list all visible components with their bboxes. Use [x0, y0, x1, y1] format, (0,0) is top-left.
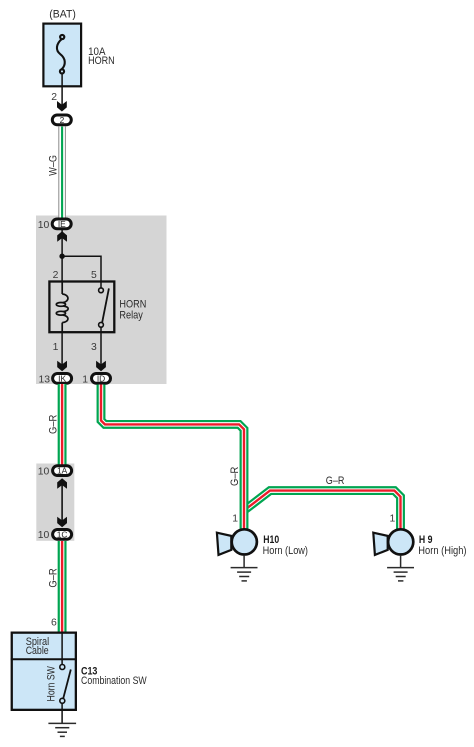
relay block gray panel — [36, 216, 167, 385]
connector IE oval — [52, 219, 71, 229]
svg-text:1: 1 — [53, 342, 59, 353]
fuse 10A HORN box — [43, 24, 81, 87]
wire relay pin1 to IK — [61, 333, 63, 367]
wire relay pin3 to ID — [100, 333, 102, 367]
svg-text:13: 13 — [38, 375, 50, 386]
svg-text:10: 10 — [38, 530, 50, 541]
ground spiral cable — [48, 723, 76, 736]
ground H10 — [231, 555, 258, 581]
svg-text:Horn (High): Horn (High) — [418, 545, 466, 557]
svg-text:3: 3 — [91, 342, 97, 353]
horn H10 circle — [232, 529, 257, 554]
gray panel around 1A/1C — [36, 464, 74, 541]
wire IE to relay pin 2 — [61, 230, 63, 281]
double arrow 1A to 1C — [61, 481, 63, 524]
svg-text:2: 2 — [51, 92, 57, 103]
wire G-R IK to 1A — [58, 384, 67, 465]
svg-text:ID: ID — [97, 373, 105, 383]
wire junction to relay pin 5 — [62, 256, 101, 281]
relay U HORN box — [49, 282, 114, 333]
horn H9 speaker — [373, 533, 387, 555]
svg-text:HORN: HORN — [88, 55, 115, 67]
arrow into connector 2 — [57, 101, 67, 112]
svg-text:1: 1 — [82, 375, 88, 386]
svg-text:IK: IK — [58, 373, 66, 383]
svg-text:Relay: Relay — [119, 309, 143, 321]
wire G-R 1C to spiral cable — [58, 541, 67, 633]
svg-text:Cable: Cable — [26, 645, 49, 657]
svg-text:1: 1 — [390, 513, 396, 524]
connector IK oval — [53, 374, 72, 384]
divider line — [11, 658, 77, 660]
svg-text:2: 2 — [60, 115, 65, 125]
svg-text:10: 10 — [38, 466, 50, 477]
svg-text:1C: 1C — [57, 529, 68, 539]
ground H9 — [387, 555, 414, 581]
junction node — [59, 254, 64, 259]
svg-text:G–R: G–R — [326, 475, 345, 487]
fuse element — [57, 35, 65, 74]
wire G-R from ID to horn H10 — [101, 385, 244, 531]
svg-text:Horn SW: Horn SW — [46, 665, 58, 701]
svg-text:W–G: W–G — [47, 155, 59, 176]
arrow into IK — [57, 361, 67, 372]
svg-text:IE: IE — [58, 219, 66, 229]
svg-text:Horn (Low): Horn (Low) — [263, 545, 308, 557]
svg-text:G–R: G–R — [229, 466, 241, 486]
horn H10 speaker — [217, 533, 231, 555]
spiral cable box — [12, 633, 76, 710]
relay coil — [56, 281, 68, 333]
svg-text:5: 5 — [91, 270, 97, 281]
arrow into ID — [96, 361, 106, 372]
svg-text:G–R: G–R — [48, 414, 60, 434]
svg-text:6: 6 — [51, 618, 57, 629]
svg-text:(BAT): (BAT) — [49, 9, 76, 21]
relay switch — [100, 281, 102, 288]
wire W-G — [58, 127, 66, 220]
svg-text:Combination SW: Combination SW — [81, 675, 147, 687]
connector 1A oval — [53, 466, 72, 476]
svg-text:1A: 1A — [57, 466, 68, 476]
connector 1C oval — [53, 530, 72, 540]
arrow into IE — [57, 231, 67, 242]
svg-text:2: 2 — [53, 270, 59, 281]
horn H9 circle — [388, 529, 413, 554]
svg-text:10: 10 — [38, 220, 50, 231]
wire G-R branch to H9 (under main) — [244, 491, 401, 530]
connector ID oval — [92, 374, 111, 384]
svg-text:G–R: G–R — [48, 568, 60, 588]
wire fuse to connector 2 — [61, 74, 63, 109]
horn switch — [61, 632, 63, 665]
connector 2 oval — [52, 115, 71, 125]
svg-text:1: 1 — [232, 513, 238, 524]
